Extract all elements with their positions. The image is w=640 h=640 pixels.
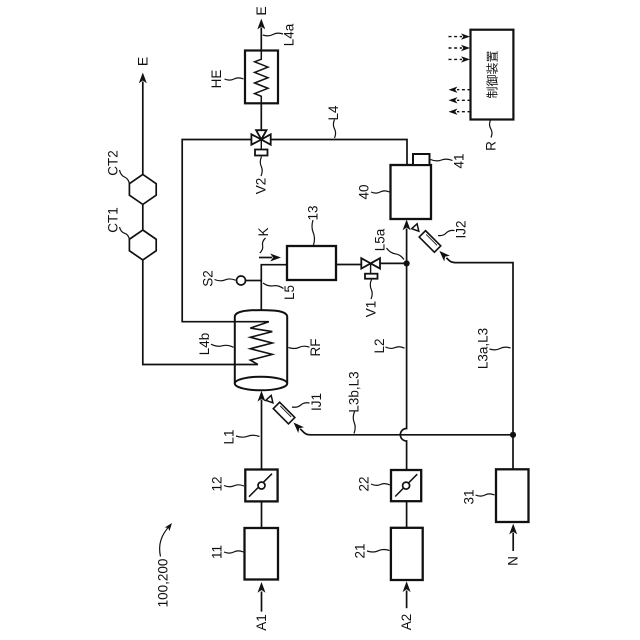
svg-text:HE: HE (209, 70, 224, 89)
label 11 (210, 545, 244, 559)
svg-text:L4a: L4a (282, 23, 297, 46)
wire L5 (261, 265, 287, 310)
arrow E (exhaust outlet) (139, 73, 147, 84)
svg-text:L4: L4 (326, 105, 341, 121)
junction node (L5a/L2/40) (404, 260, 410, 266)
label IJ2 (438, 220, 469, 238)
injector IJ1 (266, 395, 304, 433)
svg-text:L3b,L3: L3b,L3 (347, 371, 362, 412)
wire 21 to 22 (406, 501, 408, 528)
node label N (506, 556, 521, 566)
injector IJ2 (412, 224, 450, 262)
arrow N inlet (509, 524, 517, 551)
wire exhaust line E (143, 82, 258, 365)
wire L2 (with crossover hop) (400, 263, 406, 470)
svg-text:100,200: 100,200 (156, 559, 171, 608)
label 12 (210, 476, 245, 491)
node label A1 (254, 614, 269, 631)
control device box R (471, 30, 514, 120)
junction node (N split) (510, 432, 516, 438)
wire 11 to 12 (261, 501, 263, 528)
valve V2 (three-way) (251, 130, 270, 155)
label 41 (431, 153, 467, 168)
svg-text:IJ1: IJ1 (309, 393, 324, 411)
MFC 12 (245, 470, 277, 502)
label IJ1 (292, 393, 324, 411)
label RF (289, 339, 324, 357)
svg-text:N: N (506, 556, 521, 566)
svg-text:22: 22 (357, 476, 372, 491)
dashed control outputs (from R) (449, 87, 471, 115)
label 22 (357, 476, 391, 491)
svg-text:40: 40 (357, 184, 372, 199)
source 21 (391, 528, 423, 580)
svg-text:E: E (253, 6, 269, 15)
svg-text:V2: V2 (254, 178, 269, 195)
label L4b (197, 333, 234, 356)
arrow A1 inlet (258, 582, 266, 612)
svg-text:L5: L5 (282, 285, 297, 300)
label CT2 (106, 150, 130, 184)
svg-text:CT2: CT2 (106, 150, 121, 176)
label L4 (326, 105, 341, 138)
wire L1 (12 to tank) (261, 400, 263, 470)
svg-text:11: 11 (210, 545, 225, 559)
label L3b,L3 (347, 371, 362, 433)
svg-text:41: 41 (452, 153, 467, 168)
node label E (left) (134, 57, 150, 66)
label HE (209, 70, 244, 89)
label S2 (201, 270, 236, 287)
svg-text:制御装置: 制御装置 (484, 50, 499, 98)
svg-text:CT1: CT1 (106, 207, 121, 233)
trap CT2 (129, 174, 156, 204)
label L4a (263, 23, 297, 46)
label L3a,L3 (476, 328, 511, 369)
svg-text:L3a,L3: L3a,L3 (476, 328, 491, 369)
label 13 (306, 205, 321, 245)
wire L3a (N line to IJ2) (446, 258, 513, 470)
node label E (top) (253, 6, 269, 15)
MFC 22 (391, 470, 421, 501)
svg-text:21: 21 (353, 543, 368, 558)
wire V2 to HE (260, 103, 262, 130)
svg-text:L4b: L4b (197, 333, 212, 356)
arrow into chamber 40 (403, 220, 411, 264)
label L5 (263, 283, 297, 300)
label V2 (254, 157, 269, 195)
signal arrow K (256, 227, 281, 261)
svg-text:31: 31 (462, 489, 477, 504)
label L5a (373, 228, 405, 259)
svg-text:12: 12 (210, 476, 225, 491)
label V1 (364, 280, 379, 318)
node label A2 (399, 614, 414, 631)
svg-text:RF: RF (308, 339, 323, 357)
arrow E (L4a outlet) (257, 19, 265, 30)
svg-text:L2: L2 (372, 338, 387, 353)
svg-text:IJ2: IJ2 (454, 220, 469, 238)
source 11 (245, 528, 279, 580)
svg-text:E: E (134, 57, 150, 66)
label 31 (462, 489, 495, 504)
svg-text:L5a: L5a (373, 228, 388, 251)
trap CT1 (129, 230, 156, 260)
vessel RF (tank) (235, 310, 287, 390)
svg-text:K: K (256, 227, 271, 236)
label R (484, 120, 499, 151)
svg-text:R: R (484, 141, 499, 151)
source 31 (496, 469, 529, 522)
sensor S2 (237, 276, 262, 285)
svg-text:V1: V1 (364, 301, 379, 318)
label L1 (222, 429, 260, 444)
controller box 13 (287, 246, 336, 280)
label L2 (372, 338, 405, 353)
wire L3b (feed to IJ1) (300, 429, 513, 435)
chamber 40 (391, 165, 432, 219)
exhaust unit 41 (413, 154, 430, 165)
label CT1 (106, 207, 130, 239)
wire 13 to V1 (336, 264, 361, 266)
wire L4 (271, 140, 407, 166)
diagram group rotated -90deg (original landscape drawing) (106, 6, 529, 630)
heat exchanger HE (245, 51, 278, 104)
label 40 (357, 184, 390, 199)
svg-text:L1: L1 (222, 429, 237, 444)
wire L4b (182, 140, 269, 322)
svg-text:A2: A2 (399, 614, 414, 631)
wire V1 to junction (380, 262, 407, 264)
dashed control inputs (to R) (449, 33, 471, 62)
coil in RF (heat exchange coil) (250, 322, 272, 365)
reference 100,200 (156, 523, 173, 607)
svg-text:A1: A1 (254, 614, 269, 631)
arrow L1 into tank (258, 391, 266, 402)
label 21 (353, 543, 390, 558)
wire L4a (260, 28, 262, 51)
svg-text:S2: S2 (201, 270, 216, 287)
svg-text:13: 13 (306, 205, 321, 220)
arrow A2 inlet (403, 581, 411, 608)
valve V1 (361, 258, 380, 279)
